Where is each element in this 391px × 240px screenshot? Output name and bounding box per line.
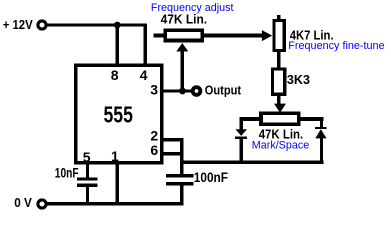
wire pin 3 output [162,89,191,92]
wire below D2 [320,138,323,164]
wire C1 to ground rail [86,187,89,204]
svg-text:4: 4 [140,67,148,83]
svg-text:3: 3 [150,81,158,97]
wire C2 to ground rail [180,185,183,204]
diode D2 [315,127,326,138]
svg-text:Mark/Space: Mark/Space [252,139,309,151]
wiper arrow VR3 [274,104,286,113]
svg-text:10nF: 10nF [55,164,79,180]
wire pin 6 stub [162,152,183,156]
terminal +12V [38,21,46,29]
svg-text:0 V: 0 V [14,195,32,210]
wire pin 4 to rail [144,25,147,65]
resistor R1 3K3 [273,69,285,94]
terminal Output [193,87,201,95]
wiper arrow VR1 [176,43,188,52]
wire ground rail [47,202,184,206]
junction dot output node [179,88,186,95]
wire below D1 [239,139,242,162]
wire wiper of VR1 down to output node [181,50,184,91]
svg-text:Output: Output [205,83,242,98]
svg-text:1: 1 [111,148,119,164]
wire VR1 left stub [154,34,166,38]
svg-text:8: 8 [111,67,119,83]
wire pin 8 to rail [116,25,119,65]
wire VR2 bottom to R1 [277,50,280,68]
wire R1 bottom to VR3 wiper [277,95,280,106]
terminal 0V [38,200,46,208]
svg-text:6: 6 [150,142,158,158]
diode D1 [235,129,247,139]
junction dot on +12V rail [114,22,121,29]
potentiometer VR2 4K7 frequency fine-tune [274,21,284,51]
wiper arrow VR2 [262,30,272,41]
wire VR2 top stub [277,15,280,21]
wire pin 1 to ground rail [116,162,119,204]
svg-text:2: 2 [150,127,158,143]
wire pins 2/6 down to C2 [180,138,183,175]
wire above D1 [239,117,242,129]
wire pin 2 stub [162,138,183,142]
IC U1 555 timer body [76,65,162,163]
svg-text:+ 12V: + 12V [3,17,33,32]
wire pin 5 to C1 [86,162,89,178]
svg-text:Frequency fine-tune: Frequency fine-tune [288,40,384,52]
capacitor C1 10nF [77,177,98,187]
wire VR3 right [299,117,324,121]
svg-text:3K3: 3K3 [287,72,310,87]
wire above D2 [320,117,323,127]
capacitor C2 100nF [166,174,194,185]
wire +12V rail [46,23,147,26]
wire bottom rail pins 2/6 to diodes [180,161,324,165]
svg-text:100nF: 100nF [194,169,229,185]
svg-text:47K Lin.: 47K Lin. [161,12,208,27]
wire VR1 right to VR2 wiper [204,34,263,38]
potentiometer VR3 47K mark/space [261,113,299,124]
potentiometer VR1 47K frequency adjust [165,30,202,40]
svg-text:555: 555 [103,101,133,127]
wire VR3 left [240,117,262,121]
